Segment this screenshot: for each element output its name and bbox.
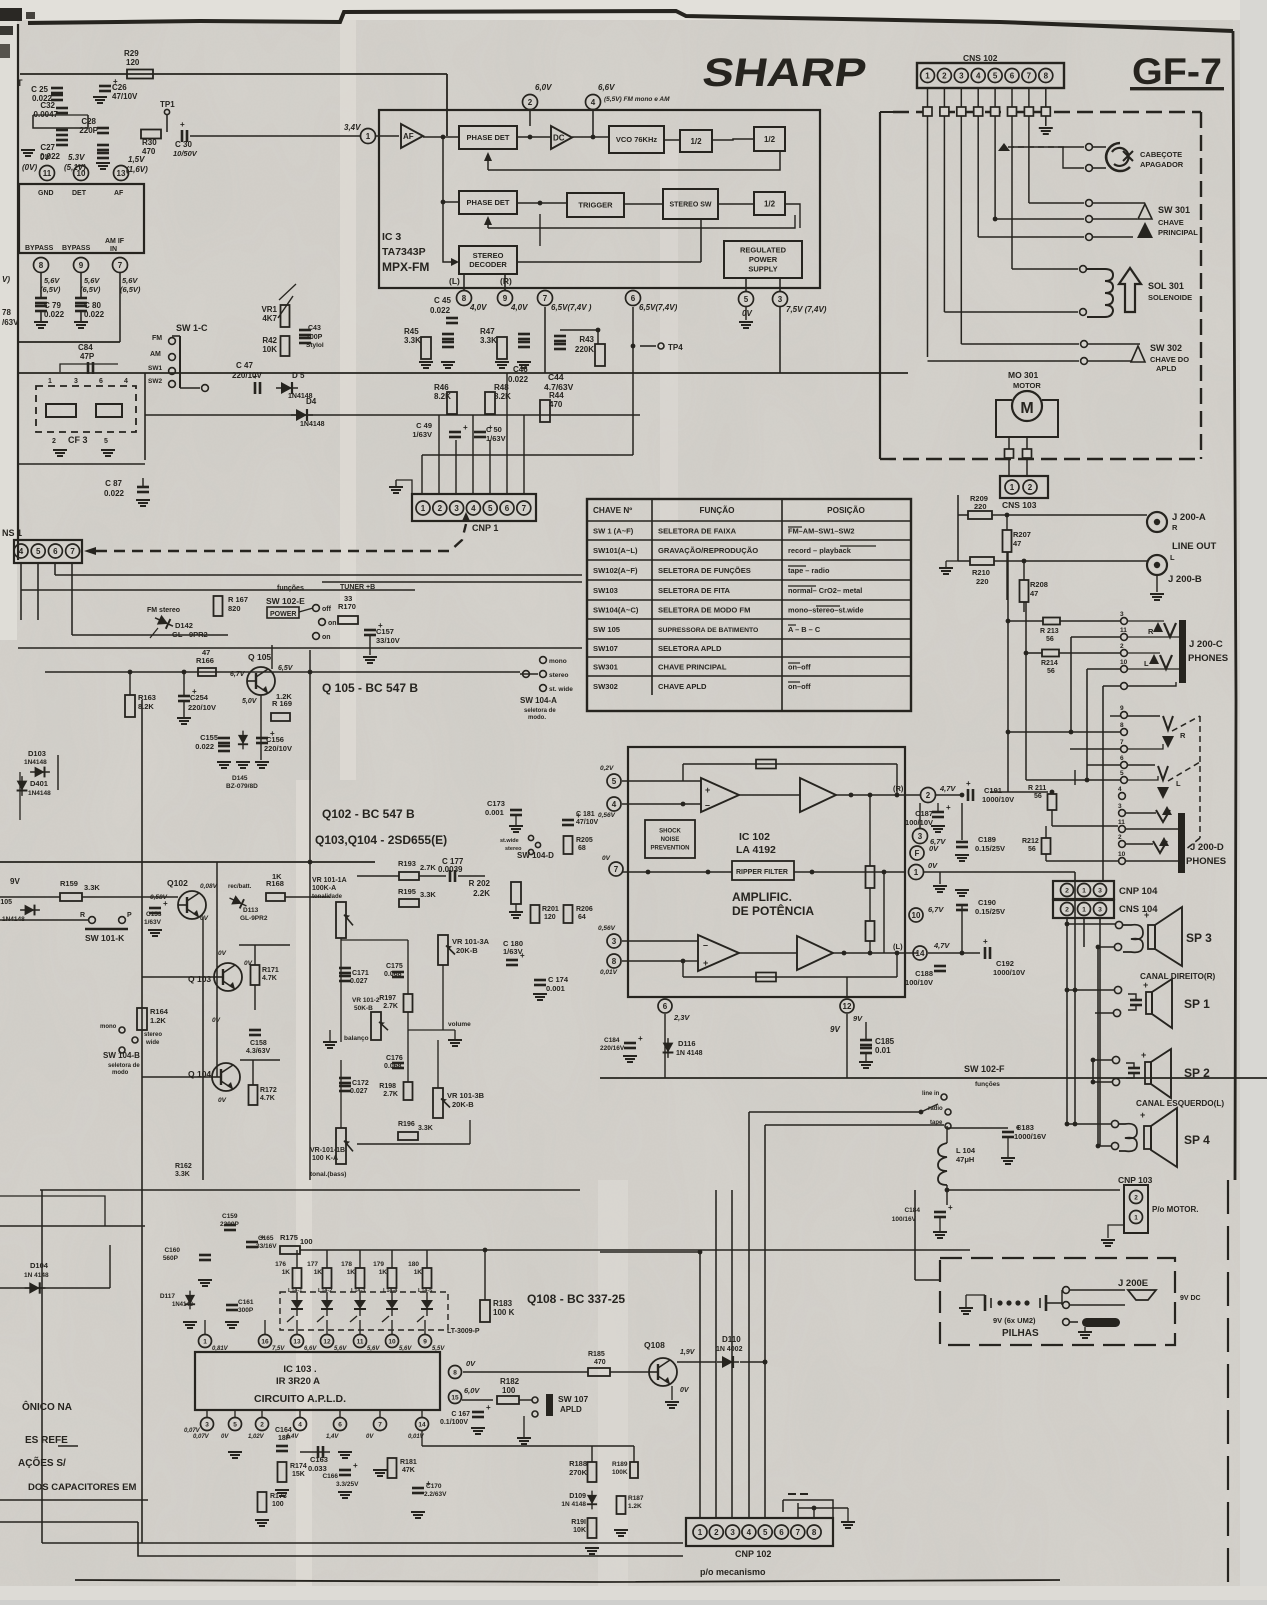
svg-text:Q108 - BC 337-25: Q108 - BC 337-25 bbox=[527, 1292, 625, 1306]
svg-text:SW 102-F: SW 102-F bbox=[964, 1064, 1005, 1074]
svg-text:3.3/25V: 3.3/25V bbox=[336, 1481, 359, 1488]
svg-text:16: 16 bbox=[261, 1338, 269, 1345]
wire cnp104 drops bbox=[1066, 918, 1068, 988]
svg-text:on–off: on–off bbox=[788, 682, 811, 691]
svg-text:3: 3 bbox=[730, 1528, 735, 1537]
svg-text:C 174: C 174 bbox=[548, 975, 569, 984]
wire trunk x142 bbox=[141, 700, 143, 1543]
svg-text:seletora de: seletora de bbox=[108, 1063, 140, 1069]
svg-text:R214: R214 bbox=[1041, 660, 1058, 667]
wire box inner corner bbox=[765, 1124, 944, 1126]
svg-text:5,6V: 5,6V bbox=[44, 276, 60, 285]
capacitor C153 bbox=[149, 907, 161, 910]
svg-text:C156: C156 bbox=[266, 735, 284, 744]
wire to 1/2C bbox=[718, 203, 754, 205]
svg-text:176: 176 bbox=[275, 1261, 286, 1268]
svg-text:SOLENOIDE: SOLENOIDE bbox=[1148, 293, 1192, 302]
svg-text:20K-B: 20K-B bbox=[452, 1100, 474, 1109]
svg-text:IC 3: IC 3 bbox=[382, 231, 401, 243]
svg-text:VR 101-3B: VR 101-3B bbox=[447, 1091, 485, 1100]
svg-text:220/10V: 220/10V bbox=[264, 744, 292, 753]
svg-text:1K: 1K bbox=[272, 872, 282, 881]
capacitor C156 bbox=[256, 737, 268, 740]
svg-text:68: 68 bbox=[578, 845, 586, 852]
svg-text:5: 5 bbox=[1120, 770, 1124, 777]
LED L14-5 bbox=[421, 1300, 433, 1309]
svg-text:PILHAS: PILHAS bbox=[1002, 1328, 1039, 1339]
resistor R170 bbox=[338, 616, 358, 624]
svg-text:D145: D145 bbox=[232, 775, 248, 782]
svg-text:CNP 1: CNP 1 bbox=[472, 523, 498, 533]
svg-text:+: + bbox=[705, 785, 710, 795]
jack J200-B bbox=[1147, 555, 1167, 575]
svg-text:6,0V: 6,0V bbox=[464, 1386, 480, 1395]
svg-text:C185: C185 bbox=[875, 1037, 895, 1046]
svg-text:9: 9 bbox=[1120, 705, 1124, 712]
IC3 block outline bbox=[379, 110, 820, 288]
connector CNP 104 bbox=[1053, 881, 1114, 899]
svg-text:0.022: 0.022 bbox=[104, 489, 125, 498]
svg-text:SUPPLY: SUPPLY bbox=[748, 265, 777, 274]
capacitor C170 bbox=[412, 1487, 424, 1490]
dashed aux return wires bbox=[1172, 716, 1200, 731]
oscillator VCO 76KHz bbox=[609, 126, 664, 153]
wire bus sw101 row bbox=[0, 919, 88, 921]
svg-text:CNS 102: CNS 102 bbox=[963, 53, 998, 63]
svg-text:D142: D142 bbox=[175, 621, 193, 630]
svg-text:2: 2 bbox=[1134, 1194, 1138, 1201]
svg-text:funções: funções bbox=[277, 585, 304, 592]
svg-text:Q 105: Q 105 bbox=[248, 652, 271, 662]
wire pilhas to left bbox=[915, 1279, 940, 1281]
svg-text:+: + bbox=[463, 423, 468, 432]
svg-text:C166: C166 bbox=[322, 1473, 338, 1480]
svg-text:APLD: APLD bbox=[560, 1405, 582, 1414]
svg-text:1: 1 bbox=[421, 504, 426, 513]
svg-text:3.3K: 3.3K bbox=[418, 1125, 433, 1132]
svg-text:R185: R185 bbox=[588, 1351, 605, 1358]
svg-text:C43: C43 bbox=[308, 325, 321, 332]
svg-text:V): V) bbox=[2, 275, 10, 284]
svg-text:C 30: C 30 bbox=[175, 140, 192, 149]
svg-text:TUNER +B: TUNER +B bbox=[340, 584, 375, 591]
resistor R29 bbox=[127, 70, 153, 79]
svg-text:8: 8 bbox=[39, 261, 44, 270]
svg-text:7: 7 bbox=[1120, 739, 1124, 746]
svg-text:R 202: R 202 bbox=[469, 879, 491, 888]
svg-text:R46: R46 bbox=[434, 383, 449, 392]
svg-text:C184: C184 bbox=[604, 1037, 620, 1044]
svg-text:SW 101-K: SW 101-K bbox=[85, 933, 125, 943]
pin 4 6.6V bbox=[586, 95, 601, 110]
svg-text:820: 820 bbox=[228, 604, 241, 613]
svg-text:220: 220 bbox=[976, 577, 989, 586]
svg-text:0,07V: 0,07V bbox=[193, 1434, 210, 1440]
capacitor C176 bbox=[392, 1062, 404, 1065]
LED L14-1 bbox=[291, 1300, 303, 1309]
wire R207 R208 grounds bbox=[1006, 552, 1008, 600]
svg-text:C 87: C 87 bbox=[105, 479, 122, 488]
capacitor C165 bbox=[246, 1241, 258, 1244]
svg-text:PREVENTION: PREVENTION bbox=[650, 846, 689, 852]
svg-text:10/50V: 10/50V bbox=[173, 149, 198, 158]
svg-text:0.022: 0.022 bbox=[430, 306, 451, 315]
IC103 pin 15 bbox=[449, 1391, 462, 1404]
wire upper inputs bbox=[622, 780, 701, 782]
svg-text:2.7K: 2.7K bbox=[383, 1003, 398, 1010]
svg-text:2: 2 bbox=[528, 98, 533, 107]
svg-text:1: 1 bbox=[366, 132, 371, 141]
svg-text:0.022: 0.022 bbox=[44, 310, 65, 319]
svg-text:220P: 220P bbox=[79, 126, 98, 135]
diode D4 bbox=[291, 409, 313, 421]
svg-text:9V (6x UM2): 9V (6x UM2) bbox=[993, 1316, 1036, 1325]
svg-text:+: + bbox=[1144, 910, 1149, 920]
pin F bbox=[910, 846, 924, 860]
svg-text:4K7: 4K7 bbox=[262, 314, 277, 323]
speaker SP4 bbox=[1111, 1120, 1118, 1127]
svg-text:0.1/100V: 0.1/100V bbox=[440, 1419, 468, 1426]
svg-text:0,08V: 0,08V bbox=[200, 883, 218, 890]
svg-text:ES REFE: ES REFE bbox=[25, 1435, 68, 1446]
svg-text:C 50: C 50 bbox=[486, 425, 502, 434]
svg-text:100K: 100K bbox=[612, 1469, 628, 1476]
svg-text:470: 470 bbox=[594, 1359, 606, 1366]
test point TP1 bbox=[164, 109, 169, 114]
resistor R181 bbox=[388, 1458, 397, 1478]
svg-text:IR 3R20 A: IR 3R20 A bbox=[276, 1376, 320, 1387]
svg-text:SW 302: SW 302 bbox=[1150, 343, 1182, 353]
svg-text:0,81V: 0,81V bbox=[212, 1346, 229, 1352]
svg-text:3: 3 bbox=[1120, 611, 1124, 618]
aux jack L bbox=[1158, 766, 1168, 780]
svg-text:TRIGGER: TRIGGER bbox=[578, 201, 613, 210]
resistor R187 bbox=[617, 1496, 626, 1514]
svg-text:L: L bbox=[1176, 779, 1181, 788]
diode D109 bbox=[587, 1491, 597, 1510]
svg-text:300P: 300P bbox=[238, 1307, 254, 1314]
svg-text:wide: wide bbox=[145, 1040, 160, 1046]
pin 12 bottom of amp bbox=[840, 999, 854, 1013]
resistor inside right lower bbox=[866, 921, 875, 941]
svg-text:PRINCIPAL: PRINCIPAL bbox=[1158, 228, 1198, 237]
svg-text:st. wide: st. wide bbox=[549, 686, 573, 693]
svg-text:2: 2 bbox=[438, 504, 443, 513]
wire R209 to J200A bbox=[992, 514, 1147, 516]
svg-text:R: R bbox=[1172, 523, 1178, 532]
svg-text:C 45: C 45 bbox=[434, 296, 451, 305]
svg-text:SELETORA DE FITA: SELETORA DE FITA bbox=[658, 586, 731, 595]
LED D143 bbox=[227, 893, 248, 910]
svg-text:CHAVE APLD: CHAVE APLD bbox=[658, 682, 707, 691]
svg-text:2,3V: 2,3V bbox=[673, 1013, 690, 1022]
svg-text:SP 1: SP 1 bbox=[1184, 997, 1210, 1011]
svg-text:5,6V: 5,6V bbox=[334, 1346, 347, 1352]
svg-text:NOISE: NOISE bbox=[661, 837, 680, 843]
svg-text:C153: C153 bbox=[146, 911, 162, 918]
svg-text:+: + bbox=[353, 1461, 358, 1470]
svg-text:IN: IN bbox=[110, 246, 117, 253]
svg-text:1K: 1K bbox=[282, 1269, 291, 1276]
svg-text:CNP 104: CNP 104 bbox=[1119, 886, 1158, 897]
wire trunk speakers x1060 bbox=[1074, 770, 1076, 785]
logic TRIGGER box bbox=[567, 193, 624, 217]
potentiometer VR101-3A bbox=[438, 935, 448, 965]
svg-text:SW107: SW107 bbox=[593, 644, 618, 653]
diode D116 bbox=[663, 1038, 674, 1058]
connector CNS 104 bbox=[1053, 900, 1114, 918]
svg-text:18P: 18P bbox=[278, 1435, 291, 1442]
ripper filter box bbox=[732, 861, 794, 880]
shock noise prevention box bbox=[645, 820, 695, 858]
svg-text:0V: 0V bbox=[680, 1387, 690, 1394]
svg-text:6,6V: 6,6V bbox=[598, 83, 615, 92]
svg-text:L14-5: L14-5 bbox=[418, 1288, 432, 1294]
svg-text:8: 8 bbox=[812, 1528, 817, 1537]
svg-text:2.7K: 2.7K bbox=[420, 863, 436, 872]
svg-text:SW301: SW301 bbox=[593, 663, 619, 672]
divider 1/2 box B bbox=[754, 127, 785, 151]
capacitor C185 bbox=[865, 1022, 867, 1040]
J200-D contacts bbox=[1119, 793, 1126, 800]
ceramic filter CF3 box bbox=[36, 386, 136, 432]
svg-text:4.7K: 4.7K bbox=[260, 1095, 275, 1102]
svg-text:7: 7 bbox=[378, 1421, 382, 1428]
svg-text:P: P bbox=[127, 912, 132, 919]
svg-text:100P: 100P bbox=[306, 334, 323, 341]
wire bus y1078 bbox=[600, 1077, 880, 1079]
svg-text:470: 470 bbox=[549, 400, 563, 409]
svg-text:14: 14 bbox=[418, 1421, 426, 1428]
svg-text:1K: 1K bbox=[414, 1269, 423, 1276]
svg-text:1/2: 1/2 bbox=[764, 199, 776, 208]
capacitor C188 bbox=[934, 965, 946, 968]
svg-text:R182: R182 bbox=[500, 1377, 520, 1386]
svg-text:LT-3009-P: LT-3009-P bbox=[447, 1328, 480, 1335]
jack J200-A bbox=[1147, 512, 1167, 532]
svg-text:1K: 1K bbox=[379, 1269, 388, 1276]
svg-text:5.3V: 5.3V bbox=[68, 153, 85, 162]
svg-text:10K: 10K bbox=[573, 1527, 586, 1534]
connector CNP 102 bbox=[686, 1518, 833, 1546]
svg-text:7: 7 bbox=[118, 261, 123, 270]
capacitor C158 bbox=[249, 1029, 261, 1032]
pin 8 bbox=[34, 258, 49, 273]
wire Q105 collector up bbox=[271, 645, 273, 669]
decoder STEREO DECODER box bbox=[459, 246, 517, 274]
wire Q103 connections bbox=[142, 976, 214, 978]
svg-text:st.wide: st.wide bbox=[500, 838, 519, 844]
svg-text:10: 10 bbox=[1120, 659, 1128, 666]
scan artifact top-left corner bbox=[0, 8, 22, 21]
svg-text:C157: C157 bbox=[376, 627, 394, 636]
svg-text:6: 6 bbox=[631, 294, 636, 303]
svg-text:FM stereo: FM stereo bbox=[147, 607, 180, 614]
svg-text:C158: C158 bbox=[250, 1040, 267, 1047]
pin 6 under IC3 bbox=[626, 291, 641, 306]
svg-text:AMPLIFIC.: AMPLIFIC. bbox=[732, 890, 792, 904]
svg-text:13: 13 bbox=[117, 169, 126, 178]
svg-text:R159: R159 bbox=[60, 879, 78, 888]
svg-text:tape: tape bbox=[930, 1120, 943, 1126]
svg-text:R29: R29 bbox=[124, 49, 139, 58]
svg-text:2: 2 bbox=[942, 71, 947, 80]
svg-text:SELETORA DE MODO FM: SELETORA DE MODO FM bbox=[658, 606, 750, 615]
resistor R208 bbox=[1020, 580, 1029, 602]
svg-text:33: 33 bbox=[344, 594, 352, 603]
ground battery left bbox=[959, 1307, 973, 1309]
svg-text:R198: R198 bbox=[379, 1083, 396, 1090]
svg-text:1: 1 bbox=[48, 378, 52, 385]
pin 1 input bbox=[361, 129, 376, 144]
svg-text:0V: 0V bbox=[218, 950, 227, 957]
svg-text:R205: R205 bbox=[576, 837, 593, 844]
svg-text:R19I: R19I bbox=[571, 1519, 586, 1526]
wire inside verticals bbox=[869, 795, 871, 866]
svg-text:SOL 301: SOL 301 bbox=[1148, 281, 1184, 291]
svg-text:LA 4192: LA 4192 bbox=[736, 844, 776, 856]
svg-text:+: + bbox=[486, 1403, 491, 1412]
svg-text:DET: DET bbox=[72, 190, 87, 197]
svg-text:(0V): (0V) bbox=[22, 163, 37, 172]
dashed wire CNS1 to CNP1 bbox=[84, 547, 96, 555]
grounds under IC103 pins bbox=[228, 1451, 242, 1453]
diode D401 bbox=[17, 776, 28, 796]
svg-text:REGULATED: REGULATED bbox=[740, 246, 787, 255]
svg-text:R 211: R 211 bbox=[1028, 785, 1046, 792]
svg-text:1: 1 bbox=[1082, 906, 1086, 913]
wire phase2 to trigger bbox=[517, 202, 567, 204]
capacitor C27 pair bbox=[56, 129, 68, 132]
resistor R167 bbox=[214, 596, 223, 616]
svg-text:1N4148: 1N4148 bbox=[28, 790, 51, 797]
wire x310 trunk bbox=[309, 650, 311, 1180]
svg-text:DOS CAPACITORES EM: DOS CAPACITORES EM bbox=[28, 1482, 136, 1493]
svg-text:VR 101-2: VR 101-2 bbox=[352, 997, 380, 1004]
svg-text:DECODER: DECODER bbox=[469, 260, 507, 269]
svg-text:FM: FM bbox=[152, 335, 162, 342]
wire VCO to 1/2A bbox=[664, 139, 680, 141]
ground Q108 bbox=[671, 1386, 673, 1400]
svg-text:SELETORA APLD: SELETORA APLD bbox=[658, 644, 722, 653]
svg-text:SW 107: SW 107 bbox=[558, 1394, 589, 1404]
svg-text:R175: R175 bbox=[280, 1233, 298, 1242]
svg-text:3: 3 bbox=[205, 1421, 209, 1428]
svg-text:3,4V: 3,4V bbox=[344, 123, 361, 132]
svg-text:6,5V(7,4V): 6,5V(7,4V) bbox=[639, 303, 678, 312]
resistor R42 bbox=[281, 336, 290, 356]
svg-text:8: 8 bbox=[462, 294, 467, 303]
svg-text:0.027: 0.027 bbox=[350, 1088, 368, 1095]
pin 9 bbox=[74, 258, 89, 273]
svg-text:270K: 270K bbox=[569, 1468, 588, 1477]
svg-text:(L): (L) bbox=[449, 276, 460, 286]
svg-text:D109: D109 bbox=[569, 1493, 586, 1500]
svg-text:5,6V: 5,6V bbox=[84, 276, 100, 285]
solenoid arrow symbol bbox=[1119, 268, 1141, 312]
wire bottom nets bbox=[591, 1446, 593, 1462]
svg-text:C172: C172 bbox=[352, 1080, 369, 1087]
svg-text:SW104(A~C): SW104(A~C) bbox=[593, 606, 639, 615]
svg-text:50K-B: 50K-B bbox=[354, 1005, 373, 1012]
svg-text:2: 2 bbox=[1118, 834, 1122, 841]
capacitor C79 bbox=[40, 273, 42, 298]
svg-text:tonal.(bass): tonal.(bass) bbox=[310, 1171, 346, 1178]
svg-text:+: + bbox=[703, 958, 708, 968]
svg-text:CHAVE DO: CHAVE DO bbox=[1150, 355, 1189, 364]
ground R202 bbox=[509, 911, 523, 913]
resistor R190 bbox=[588, 1518, 597, 1538]
svg-text:0,56V: 0,56V bbox=[598, 812, 616, 819]
svg-text:(R): (R) bbox=[893, 784, 904, 793]
svg-text:100: 100 bbox=[272, 1501, 284, 1508]
svg-text:9V: 9V bbox=[830, 1025, 840, 1034]
svg-text:6: 6 bbox=[663, 1002, 668, 1011]
speaker SP1 bbox=[1065, 988, 1070, 993]
svg-text:56: 56 bbox=[1034, 793, 1042, 800]
svg-text:GRAVAÇÃO/REPRODUÇÃO: GRAVAÇÃO/REPRODUÇÃO bbox=[658, 546, 758, 555]
amp DC triangle bbox=[551, 126, 572, 149]
svg-text:L: L bbox=[1170, 553, 1175, 562]
svg-text:mono–stereo–st.wide: mono–stereo–st.wide bbox=[788, 606, 864, 615]
wire vertical x145 bbox=[144, 373, 146, 460]
connector CNS 103 bbox=[1008, 458, 1010, 476]
resistor R164 bbox=[137, 1008, 147, 1030]
wire pin 6 down bbox=[632, 307, 634, 455]
svg-text:1/2: 1/2 bbox=[690, 137, 702, 146]
wire left vertical border of radio section bbox=[17, 24, 19, 560]
LED L14-2 bbox=[321, 1300, 333, 1309]
svg-text:R193: R193 bbox=[398, 859, 416, 868]
svg-text:R 167: R 167 bbox=[228, 595, 248, 604]
pin 14 output bbox=[913, 946, 927, 960]
svg-text:1: 1 bbox=[925, 71, 930, 80]
pin 2 output bbox=[921, 788, 936, 803]
wire bus y635 bbox=[72, 634, 228, 636]
diode D5 bbox=[276, 382, 298, 394]
wire AF to PHASE DET bbox=[423, 136, 459, 138]
feedback loop bottom bbox=[683, 976, 897, 978]
svg-text:SP 3: SP 3 bbox=[1186, 931, 1212, 945]
svg-text:4: 4 bbox=[19, 547, 24, 556]
wires CNP1 feeders bbox=[421, 455, 423, 494]
svg-text:9: 9 bbox=[79, 261, 84, 270]
IC103 pin 8 bbox=[449, 1366, 462, 1379]
svg-text:funções: funções bbox=[975, 1081, 1000, 1088]
svg-text:CNP 102: CNP 102 bbox=[735, 1549, 771, 1559]
wire erase head connections bbox=[1012, 146, 1084, 148]
svg-text:PHASE DET: PHASE DET bbox=[467, 133, 510, 142]
svg-text:0V: 0V bbox=[221, 1434, 229, 1440]
capacitor C254 bbox=[178, 695, 190, 698]
svg-text:5: 5 bbox=[233, 1421, 237, 1428]
resistor R168 bbox=[266, 893, 285, 901]
svg-text:120: 120 bbox=[544, 914, 556, 921]
svg-text:POWER: POWER bbox=[270, 611, 296, 618]
svg-text:GND: GND bbox=[38, 190, 54, 197]
op-amp upper output triangle bbox=[800, 778, 836, 812]
svg-text:1/63V: 1/63V bbox=[412, 430, 432, 439]
switch SW302 contact arrow bbox=[1131, 346, 1145, 362]
aux jack R bbox=[1163, 716, 1173, 730]
svg-text:1N 4148: 1N 4148 bbox=[24, 1272, 49, 1279]
resistor R44 bbox=[540, 400, 550, 422]
wire left column x18 to CNS1 bbox=[17, 440, 19, 470]
svg-text:0.01: 0.01 bbox=[875, 1046, 891, 1055]
svg-text:J 200E: J 200E bbox=[1118, 1278, 1148, 1289]
resistor R185 bbox=[588, 1368, 610, 1376]
svg-text:VR 101-1A: VR 101-1A bbox=[312, 877, 347, 884]
